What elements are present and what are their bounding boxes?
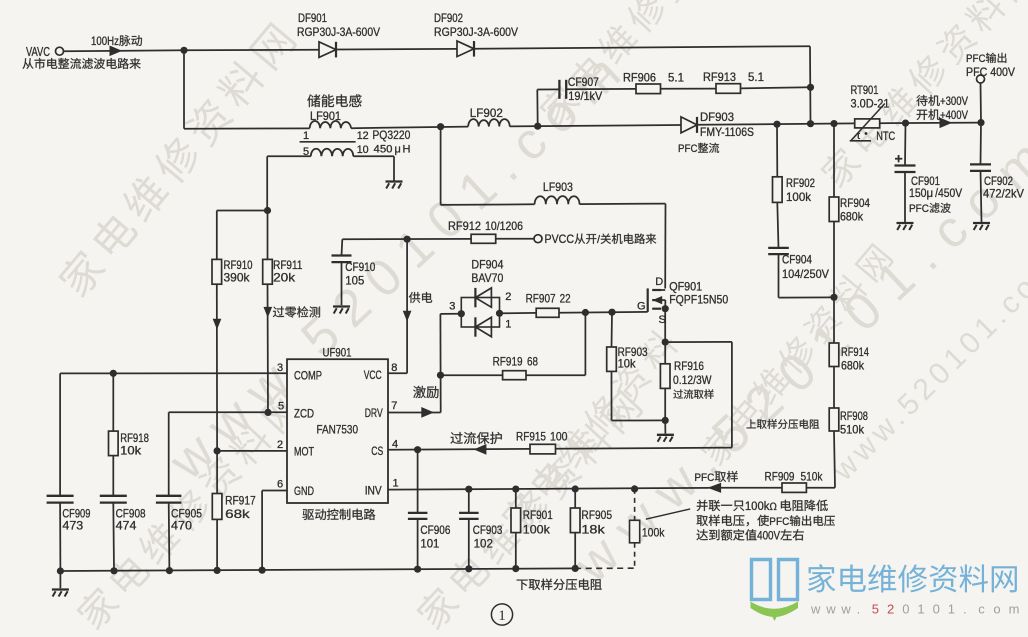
svg-text:12: 12 xyxy=(357,130,369,142)
svg-text:CF901: CF901 xyxy=(911,174,940,188)
ground at sense junction xyxy=(664,420,666,433)
junction RF902 tap xyxy=(773,121,780,128)
resistor RF910 xyxy=(212,258,253,285)
wire CF901 to ground xyxy=(904,172,906,222)
svg-text:PFC: PFC xyxy=(678,143,698,155)
wire corner down to bus xyxy=(809,46,812,124)
svg-text:m: m xyxy=(1009,602,1020,617)
junction parallel resistor on INV xyxy=(631,485,638,492)
svg-text:DF902: DF902 xyxy=(434,11,463,25)
svg-text:PFC: PFC xyxy=(909,203,929,215)
wire RF902 to CF904 xyxy=(777,202,778,248)
wire source down xyxy=(664,309,666,342)
junction bus RF905 xyxy=(572,565,579,572)
capacitor CF908 xyxy=(100,496,146,533)
svg-text:100k: 100k xyxy=(642,526,665,540)
svg-text:4: 4 xyxy=(392,439,398,451)
wire RF914 up to CF904 junction xyxy=(833,297,835,343)
wire RF913 to corner junction xyxy=(741,87,811,88)
wire PVCC line xyxy=(342,238,471,240)
svg-text:RF901: RF901 xyxy=(523,508,553,522)
svg-text:RF904: RF904 xyxy=(840,196,870,210)
wire DF904 to RF907 xyxy=(500,312,537,314)
junction bus CF905 xyxy=(166,567,173,574)
wire mid bus LF901 to LF902 xyxy=(351,127,468,129)
svg-text:CF903: CF903 xyxy=(473,523,503,537)
svg-text:VCC: VCC xyxy=(364,370,382,382)
wire RF904 to junction xyxy=(833,222,835,298)
svg-text:RF908: RF908 xyxy=(840,409,868,423)
svg-text:VAVC: VAVC xyxy=(26,45,50,59)
svg-text:100k: 100k xyxy=(745,501,770,513)
junction bus GND pin xyxy=(259,567,266,574)
capacitor CF906 xyxy=(408,450,451,551)
decorative watermarks xyxy=(54,246,108,300)
svg-text:1: 1 xyxy=(917,602,924,617)
svg-text:10k: 10k xyxy=(120,444,142,458)
wire CF905 to bottom bus xyxy=(168,503,171,571)
wire RF906 to RF913 xyxy=(661,88,717,90)
svg-text:DF903: DF903 xyxy=(700,110,734,124)
svg-text:G: G xyxy=(637,301,646,313)
wire RF911 to ZCD with arrow xyxy=(267,284,270,412)
node supply label and arrow xyxy=(409,292,420,303)
capacitor CF905 xyxy=(156,496,202,533)
svg-text:390k: 390k xyxy=(224,271,251,285)
svg-text:RF914: RF914 xyxy=(841,345,869,359)
wire CF902 to ground xyxy=(981,171,982,222)
resistor RF913 xyxy=(703,70,764,93)
resistor RF907 xyxy=(526,292,571,318)
svg-text:8: 8 xyxy=(391,362,397,374)
svg-text:μ: μ xyxy=(395,144,401,156)
junction top-wire return xyxy=(807,120,814,127)
junction CF907 tap xyxy=(534,123,541,130)
wire RF917 to bottom bus xyxy=(216,519,218,570)
junction ZCD xyxy=(264,409,271,416)
svg-text:CF906: CF906 xyxy=(420,523,450,537)
logo book icon xyxy=(752,560,798,600)
wire LF903 to drain xyxy=(580,203,666,206)
svg-text:1: 1 xyxy=(948,602,955,617)
junction RF901 on INV xyxy=(512,486,519,493)
capacitor CF902 xyxy=(970,123,1024,201)
wire CF909 to bottom bus xyxy=(59,503,61,571)
wire LF903 drop from bus xyxy=(440,127,442,205)
svg-text:RF919: RF919 xyxy=(493,355,523,369)
svg-text:FQPF15N50: FQPF15N50 xyxy=(669,293,728,307)
svg-text:0: 0 xyxy=(933,602,940,617)
wire top bus to DF901 xyxy=(184,49,319,52)
svg-text:19/1kV: 19/1kV xyxy=(568,89,602,103)
junction source xyxy=(662,305,669,312)
capacitor CF903 xyxy=(459,489,502,550)
svg-text:510k: 510k xyxy=(840,423,865,437)
svg-text:RF907: RF907 xyxy=(526,292,556,306)
svg-text:RF916: RF916 xyxy=(674,359,704,373)
wire RF905 to bus xyxy=(574,533,576,569)
resistor RF917 xyxy=(212,494,256,522)
diode DF902 xyxy=(434,11,518,57)
resistor RF906 xyxy=(623,71,684,94)
wire RF901 to bus xyxy=(515,533,517,569)
wire MOT pin xyxy=(217,450,287,452)
svg-text:+300V: +300V xyxy=(940,96,968,108)
capacitor CF901 electrolytic xyxy=(895,123,963,215)
diode DF901 xyxy=(297,11,380,57)
node source label xyxy=(22,58,33,69)
junction bus RF901 xyxy=(512,565,519,572)
wire bus to RF902 xyxy=(776,124,778,177)
wire COMP corner down to CF909 xyxy=(59,373,61,495)
svg-text:DRV: DRV xyxy=(365,408,383,420)
ground under CF901 xyxy=(897,222,914,224)
svg-text:3.0D-21: 3.0D-21 xyxy=(851,97,890,111)
svg-text:w: w xyxy=(840,602,851,617)
junction RF903 tap on gate line xyxy=(608,309,615,316)
resistor RF902 xyxy=(773,176,816,204)
svg-text:105: 105 xyxy=(345,274,364,288)
capacitor CF909 xyxy=(47,496,91,533)
svg-text:RF915: RF915 xyxy=(516,430,546,444)
wire RF918 to CF908 xyxy=(112,456,114,496)
wire bottom ground bus xyxy=(60,568,575,571)
svg-text:450: 450 xyxy=(374,144,393,156)
svg-text:2: 2 xyxy=(505,291,511,303)
svg-text:COMP: COMP xyxy=(294,371,322,383)
junction RF905 on INV xyxy=(572,485,579,492)
svg-text:RF902: RF902 xyxy=(786,176,815,190)
svg-text:1: 1 xyxy=(303,130,309,142)
junction bus CF909 xyxy=(57,567,64,574)
diode DF903 PFC rectifier xyxy=(678,110,754,155)
svg-text:LF903: LF903 xyxy=(543,180,573,194)
resistor RF905 xyxy=(570,489,612,537)
svg-text:400V: 400V xyxy=(757,531,780,543)
svg-text:150: 150 xyxy=(909,188,927,200)
wire INV to RF909 xyxy=(709,487,782,489)
junction bus RF917 xyxy=(214,567,221,574)
wire ZCD line xyxy=(169,411,287,413)
wire CF907 to RF906 xyxy=(566,88,636,90)
wire COMP to RF918 xyxy=(112,373,114,431)
wire RF907 to gate xyxy=(559,311,648,314)
svg-text:RGP30J-3A-600V: RGP30J-3A-600V xyxy=(297,25,380,39)
svg-text:100k: 100k xyxy=(786,190,812,204)
node PVCC terminal xyxy=(534,232,656,246)
svg-text:μ: μ xyxy=(927,188,934,200)
wire bus ground stub xyxy=(59,571,61,588)
svg-text:PQ3220: PQ3220 xyxy=(372,128,410,142)
junction MOT xyxy=(214,447,221,454)
svg-text:3: 3 xyxy=(449,301,455,313)
core bar PQ3220 xyxy=(300,141,356,143)
inductor LF903 xyxy=(535,180,580,204)
capacitor CF907 xyxy=(559,75,602,103)
junction on CF907 line xyxy=(807,84,814,91)
junction winding branch xyxy=(264,207,271,214)
resistor RF908 xyxy=(829,408,868,437)
wire CF904 to RF904 line xyxy=(778,254,780,298)
svg-text:RF912: RF912 xyxy=(448,219,481,233)
resistor RF916 current sense xyxy=(660,342,713,399)
svg-text:0.12/3W: 0.12/3W xyxy=(673,373,712,387)
wire mid bus left segment xyxy=(184,127,310,129)
svg-text:ZCD: ZCD xyxy=(294,409,314,421)
junction RF904 tap xyxy=(830,120,837,127)
wire PVCC junction to CF910 xyxy=(341,239,344,255)
wire winding10 right to ground xyxy=(353,155,394,157)
svg-text:RF913: RF913 xyxy=(703,70,736,84)
junction CF904-RF904 xyxy=(830,294,837,301)
junction bus CF906 xyxy=(414,566,421,573)
svg-text:NTC: NTC xyxy=(876,129,895,143)
wire winding5 left to ZCD drop xyxy=(267,155,311,157)
junction sense ground xyxy=(662,417,669,424)
wire CF903 to bus xyxy=(468,519,470,569)
junction bus CF903 xyxy=(465,565,472,572)
wire source to CS riser xyxy=(665,341,732,343)
junction bus CF908 xyxy=(110,567,117,574)
svg-text:10/1206: 10/1206 xyxy=(485,219,523,233)
svg-text:RF906: RF906 xyxy=(623,71,656,85)
wire COMP line xyxy=(60,372,287,374)
svg-text:20k: 20k xyxy=(273,271,296,285)
junction CF903 on INV xyxy=(465,486,472,493)
wire RT901 to output node xyxy=(880,122,981,125)
wire GND pin down xyxy=(262,490,287,492)
resistor RF912 xyxy=(448,219,523,243)
junction source sense xyxy=(662,339,669,346)
wire RF912 to PVCC terminal xyxy=(496,238,534,240)
node PFC output terminal xyxy=(966,53,1015,123)
wire VCC vertical xyxy=(406,239,408,373)
junction CF901 tap xyxy=(902,120,909,127)
svg-text:1: 1 xyxy=(505,319,511,331)
svg-text:QF901: QF901 xyxy=(669,280,702,294)
node upper divider label xyxy=(747,419,756,428)
svg-text:100: 100 xyxy=(550,430,568,444)
svg-text:102: 102 xyxy=(474,537,494,551)
svg-text:PFC 400V: PFC 400V xyxy=(966,65,1015,79)
inductor LF902 xyxy=(468,106,510,127)
resistor RF914 xyxy=(829,343,869,373)
svg-text:FAN7530: FAN7530 xyxy=(317,423,359,437)
transistor QF901 MOSFET xyxy=(637,276,728,326)
wire RF903 to gate line xyxy=(611,312,614,347)
node lower divider label xyxy=(517,580,528,590)
wire RF919 line xyxy=(441,374,503,376)
wire DF901 to DF902 xyxy=(337,48,458,51)
svg-text:5: 5 xyxy=(872,602,879,617)
svg-text:5.1: 5.1 xyxy=(748,70,764,84)
svg-text:RT901: RT901 xyxy=(851,83,879,97)
svg-text:DF901: DF901 xyxy=(298,11,327,25)
wire DF903 to RT901 xyxy=(698,123,855,124)
ground under CF910 xyxy=(333,305,350,307)
node output arrow xyxy=(940,118,951,127)
junction main input xyxy=(180,47,187,54)
svg-text:UF901: UF901 xyxy=(323,346,352,360)
svg-text:MOT: MOT xyxy=(294,447,314,459)
wire DF902 to right corner xyxy=(475,46,811,49)
wire RF908 to RF914 xyxy=(833,367,835,409)
svg-text:101: 101 xyxy=(420,537,439,551)
svg-text:18k: 18k xyxy=(581,523,605,537)
node standby voltage labels xyxy=(916,95,927,106)
resistor RF904 xyxy=(829,196,870,224)
resistor RF903 xyxy=(607,345,648,371)
wire VAVC to junction xyxy=(64,49,185,52)
svg-text:1: 1 xyxy=(393,478,399,490)
ic UF901 FAN7530 drive controller xyxy=(287,346,388,520)
svg-text:.: . xyxy=(963,602,967,617)
svg-text:474: 474 xyxy=(116,519,137,533)
wire MOT to RF917 xyxy=(216,451,218,494)
node parallel resistor note callout xyxy=(646,500,835,543)
svg-text:PFC: PFC xyxy=(769,516,789,528)
svg-text:FMY-1106S: FMY-1106S xyxy=(700,125,754,139)
svg-text:CF904: CF904 xyxy=(782,253,812,267)
junction RF919 tap on gate line xyxy=(582,309,589,316)
svg-text:LF901: LF901 xyxy=(310,109,341,123)
svg-text:473: 473 xyxy=(62,519,83,533)
capacitor CF904 xyxy=(768,248,829,281)
wire CS line from pin 4 xyxy=(388,448,732,450)
svg-text:7: 7 xyxy=(391,400,397,412)
wire VCC into pin 8 xyxy=(388,372,407,374)
junction CF906 tap on CS xyxy=(414,446,421,453)
svg-text:6: 6 xyxy=(277,479,283,491)
svg-text:RF905: RF905 xyxy=(581,508,612,522)
junction DRV-RF919 xyxy=(437,372,444,379)
svg-text:w: w xyxy=(810,602,821,617)
inductor LF901 winding 1-12 xyxy=(303,94,411,142)
node figure number 1 xyxy=(491,604,512,625)
resistor 100k parallel (dashed) xyxy=(630,489,666,568)
diode DF904 BAV70 xyxy=(449,258,511,337)
svg-text:o: o xyxy=(993,602,1000,617)
resistor RF909 xyxy=(765,470,824,493)
wire DF904 pin3 to DRV riser xyxy=(440,313,461,315)
node zero-cross label xyxy=(273,306,284,317)
svg-text:680k: 680k xyxy=(841,359,865,373)
svg-text:510k: 510k xyxy=(801,470,824,484)
resistor RF901 xyxy=(511,489,553,536)
wire zero-cross branch top xyxy=(217,210,268,212)
svg-text:1: 1 xyxy=(498,608,506,624)
svg-text:2: 2 xyxy=(887,602,894,617)
resistor RF918 xyxy=(109,431,150,458)
svg-text:RGP30J-3A-600V: RGP30J-3A-600V xyxy=(434,25,518,39)
wire CF910 to ground xyxy=(341,262,343,305)
thermistor RT901 NTC xyxy=(850,83,896,143)
svg-text:CF907: CF907 xyxy=(568,75,599,89)
svg-text:5.1: 5.1 xyxy=(668,71,684,85)
capacitor CF910 xyxy=(332,256,376,288)
svg-text:/450V: /450V xyxy=(935,188,962,200)
svg-text:D: D xyxy=(655,276,663,288)
ground under CF902 xyxy=(973,222,990,224)
wire sense junction to RF903 xyxy=(612,419,666,421)
svg-text:470: 470 xyxy=(171,519,192,533)
svg-text:INV: INV xyxy=(365,486,382,498)
wire RF916 to sense junction xyxy=(664,388,666,420)
wire DRV pin to riser xyxy=(388,412,441,414)
wire input junction down to mid bus xyxy=(183,50,185,128)
svg-text:68: 68 xyxy=(527,355,538,369)
junction LF903 tap xyxy=(437,123,444,130)
svg-text:3: 3 xyxy=(277,362,283,374)
wire bus to RF904 xyxy=(833,124,835,197)
junction PFC output xyxy=(977,119,984,126)
ground main xyxy=(52,588,69,590)
svg-text:RF909: RF909 xyxy=(765,470,795,484)
svg-text:0: 0 xyxy=(902,602,909,617)
svg-text:CS: CS xyxy=(371,446,383,458)
svg-text:LF902: LF902 xyxy=(470,106,503,120)
svg-text:5: 5 xyxy=(278,401,284,413)
ground under LF901 winding xyxy=(386,180,403,182)
logo site name xyxy=(808,564,836,592)
resistor RF911 xyxy=(263,258,303,285)
node drive label and arrow xyxy=(413,386,425,398)
svg-text:GND: GND xyxy=(294,486,314,498)
wire CF906 to bus xyxy=(417,519,419,569)
svg-text:PFC: PFC xyxy=(694,472,714,484)
svg-text:BAV70: BAV70 xyxy=(471,271,503,285)
svg-text:c: c xyxy=(978,602,985,617)
junction RF918 tap xyxy=(110,370,117,377)
resistor RF919 xyxy=(493,355,539,380)
svg-text:PVCC: PVCC xyxy=(545,232,575,246)
svg-text:68k: 68k xyxy=(225,507,251,521)
svg-text:DF904: DF904 xyxy=(471,258,503,272)
svg-text:100Hz: 100Hz xyxy=(91,36,119,48)
svg-text:10: 10 xyxy=(357,144,369,156)
svg-text:H: H xyxy=(403,144,411,156)
inductor LF901 winding 5-10 xyxy=(303,144,411,159)
wire dashed bus extension xyxy=(575,567,634,569)
junction VCC supply xyxy=(404,236,411,243)
svg-text:RF917: RF917 xyxy=(225,494,256,508)
wire CF907 branch up xyxy=(536,90,538,127)
svg-text:CF910: CF910 xyxy=(345,260,375,274)
svg-text:22: 22 xyxy=(560,292,571,306)
node VAVC input terminal xyxy=(56,47,64,55)
svg-text:10k: 10k xyxy=(618,357,637,371)
svg-text:100k: 100k xyxy=(523,523,551,537)
svg-text:w: w xyxy=(825,602,836,617)
svg-text:472/2kV: 472/2kV xyxy=(983,187,1024,201)
wire INV line from pin 1 xyxy=(388,488,709,490)
wire winding to RF911 xyxy=(267,211,269,260)
wire RF910 down to MOT with arrow xyxy=(216,284,218,451)
svg-text:680k: 680k xyxy=(840,210,864,224)
svg-text:2: 2 xyxy=(277,439,283,451)
wire RF909 to riser xyxy=(806,487,835,489)
svg-text:PFC: PFC xyxy=(966,53,986,65)
svg-text:.: . xyxy=(857,602,861,617)
wire LF902 to DF903 xyxy=(510,125,681,126)
wire CF908 to bottom bus xyxy=(112,503,115,571)
svg-text:104/250V: 104/250V xyxy=(782,267,829,281)
resistor RF915 xyxy=(516,430,568,454)
node overcurrent protect label and arrow xyxy=(450,432,462,444)
